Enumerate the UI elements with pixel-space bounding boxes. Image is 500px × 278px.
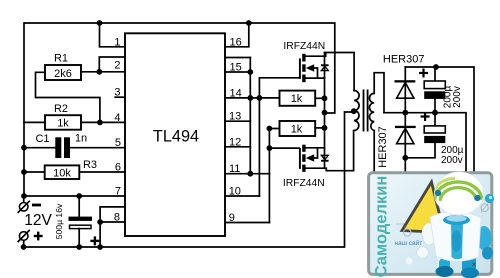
svg-text:наш сайт: наш сайт xyxy=(395,239,423,247)
svg-text:14: 14 xyxy=(230,87,242,99)
svg-text:200v: 200v xyxy=(441,155,463,166)
svg-text:IRFZ44N: IRFZ44N xyxy=(283,41,325,52)
svg-text:1k: 1k xyxy=(291,93,303,105)
svg-text:7: 7 xyxy=(115,186,121,198)
svg-text:8: 8 xyxy=(114,211,120,223)
svg-text:10: 10 xyxy=(229,186,241,198)
svg-text:500µ 16v: 500µ 16v xyxy=(54,203,64,239)
svg-text:2: 2 xyxy=(114,59,120,71)
svg-text:4: 4 xyxy=(114,112,120,124)
svg-text:1: 1 xyxy=(114,36,120,48)
svg-text:IRFZ44N: IRFZ44N xyxy=(283,178,325,189)
svg-text:16: 16 xyxy=(230,36,242,48)
svg-text:200v: 200v xyxy=(452,86,463,108)
svg-text:12: 12 xyxy=(229,136,241,148)
svg-text:TL494: TL494 xyxy=(153,128,199,146)
svg-text:Самоделкин: Самоделкин xyxy=(373,176,391,278)
svg-text:6: 6 xyxy=(115,162,121,174)
svg-text:3: 3 xyxy=(114,87,120,99)
svg-text:2k6: 2k6 xyxy=(54,68,72,80)
svg-text:1n: 1n xyxy=(75,133,87,145)
svg-text:12V: 12V xyxy=(24,212,52,229)
svg-text:HER307: HER307 xyxy=(383,54,425,66)
svg-text:5: 5 xyxy=(115,137,121,149)
svg-text:✕: ✕ xyxy=(471,262,477,269)
svg-text:R1: R1 xyxy=(54,53,68,65)
svg-text:1k: 1k xyxy=(291,124,303,136)
svg-text:9: 9 xyxy=(229,212,235,224)
svg-text:R2: R2 xyxy=(54,103,68,115)
svg-text:10k: 10k xyxy=(53,167,71,179)
svg-text:15: 15 xyxy=(230,62,242,74)
svg-text:HER307: HER307 xyxy=(377,126,389,168)
svg-text:11: 11 xyxy=(229,163,240,175)
svg-text:13: 13 xyxy=(229,111,241,123)
svg-text:C1: C1 xyxy=(35,133,49,145)
svg-text:R3: R3 xyxy=(83,159,97,171)
svg-text:1k: 1k xyxy=(57,118,69,130)
